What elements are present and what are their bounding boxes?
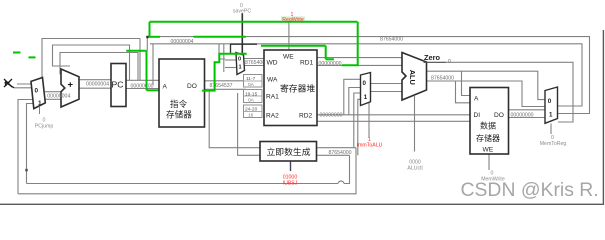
svg-text:寄存器堆: 寄存器堆 [280, 83, 315, 94]
wire green RegWrite right drop [357, 22, 359, 66]
wire DM WE stub [488, 154, 490, 170]
wire ALU out line1 to memtoreg mux [427, 71, 545, 99]
wire imm up to ALUsrc mux in1 line2 [358, 99, 361, 155]
wire green y37 segment2 [194, 36, 246, 38]
svg-text:RD2: RD2 [299, 113, 313, 120]
wire RD1 to ALU line2 [317, 64, 402, 66]
wire IM DO channel line2 [205, 88, 247, 90]
adder [61, 69, 79, 107]
wire PC loop outer right drop [139, 39, 141, 81]
immediate generator [260, 142, 317, 162]
svg-text:00000000: 00000000 [318, 61, 341, 67]
svg-text:PC: PC [112, 80, 124, 90]
wire RD1 to ALU line1 [317, 57, 402, 59]
svg-text:ALU: ALU [408, 70, 417, 85]
slice bits 11-7 [244, 75, 263, 89]
wire immgen out line1 [317, 147, 357, 149]
wire instr to immgen right [238, 93, 260, 155]
wire DM DO to mux line2 [509, 117, 546, 119]
wire WD mux in1 stub b [225, 67, 237, 69]
wire Zero output [446, 62, 573, 122]
wire green WE drop [289, 45, 326, 47]
svg-text:WE: WE [283, 54, 294, 61]
svg-text:19-15: 19-15 [245, 92, 258, 98]
wire RegWrite stub [288, 22, 290, 46]
svg-text:0: 0 [35, 88, 39, 95]
instruction memory [159, 59, 205, 127]
mux savePC (WD) [236, 53, 245, 75]
wire instr to immgen left [209, 89, 260, 147]
wire MemToReg select stub [550, 124, 552, 135]
wire green pc top link [126, 50, 146, 52]
wire top channel line 1 (savePC / ALU-out band top) [150, 37, 590, 114]
svg-text:0: 0 [363, 80, 367, 87]
wire savePC vertical drop to WD mux [230, 44, 232, 53]
wire outer feedback loop bottom/right [0, 30, 603, 204]
wire hop on line A [338, 181, 344, 183]
data memory [470, 88, 509, 155]
wire green dash 2 [29, 56, 36, 58]
svg-text:0: 0 [448, 59, 451, 65]
svg-text:16: 16 [248, 113, 254, 119]
wire WE stub regfile [288, 46, 290, 50]
wire green y37 segment1 [149, 36, 161, 38]
wire dark stub left of savePC mux [223, 44, 225, 72]
wire mux0 input a [14, 87, 34, 89]
svg-text:RegWrite: RegWrite [282, 17, 304, 23]
svg-text:DO: DO [494, 112, 504, 119]
svg-text:WA: WA [267, 77, 278, 84]
svg-text:CSDN @Kris R.: CSDN @Kris R. [461, 179, 599, 201]
svg-text:87654537: 87654537 [209, 83, 232, 89]
svg-text:00000004: 00000004 [86, 82, 109, 88]
wire ALUsrc mux out to ALU [371, 83, 403, 85]
mux PCjump [31, 78, 45, 115]
wire green dash 1 [13, 52, 21, 54]
svg-text:11-7: 11-7 [246, 76, 256, 82]
mux ALUsrc [361, 73, 371, 106]
svg-text:0: 0 [548, 98, 552, 105]
wire green into IM A [147, 89, 160, 91]
svg-text:1: 1 [239, 65, 242, 71]
junction dot [25, 169, 28, 172]
wire savePC channel dark segment [230, 44, 257, 53]
wire PC out line2 [126, 88, 159, 90]
svg-text:00000000: 00000000 [319, 113, 342, 119]
arrow unconnected marker [4, 79, 14, 88]
svg-text:0: 0 [238, 57, 241, 63]
svg-text:1: 1 [38, 100, 42, 107]
wire adder to PC line2 [79, 87, 111, 89]
wire mux out to adder line2 [45, 98, 61, 100]
wire green y65.3 horizontal [342, 64, 359, 66]
wire PC loop outer [42, 39, 140, 81]
wire green DO to WD mux staircase (over mux) [202, 54, 247, 91]
svg-text:IUBSJ: IUBSJ [283, 181, 298, 187]
wire ALUsrc select stub [368, 102, 370, 138]
wire RD2 channel line1 [317, 114, 470, 116]
wire ALUctl stub [414, 96, 416, 152]
svg-text:RA2: RA2 [266, 113, 279, 120]
wire DM DO to mux line1 [509, 109, 546, 111]
svg-text:24-20: 24-20 [245, 107, 258, 113]
wire RD2 channel line2 [317, 120, 470, 122]
svg-text:00000000: 00000000 [510, 113, 533, 119]
wire green left drop [149, 22, 151, 37]
wire green mid horizontal [261, 45, 289, 47]
svg-text:+: + [68, 80, 74, 91]
wire WD mux in1 stub a [225, 59, 236, 61]
svg-text:87654000: 87654000 [328, 150, 351, 156]
svg-text:87654000: 87654000 [431, 75, 454, 81]
wire ALU out line2 to memtoreg mux [427, 81, 545, 107]
wire top channel line 2 (band bottom) [150, 44, 582, 106]
svg-text:ImmToALU: ImmToALU [357, 143, 383, 149]
wire mux0 input b [17, 83, 34, 85]
svg-text:DO: DO [187, 83, 197, 90]
svg-text:DI: DI [474, 112, 481, 119]
wire band left drop [152, 44, 154, 85]
svg-text:WD: WD [267, 60, 278, 67]
wire WD mux out to regfile [245, 58, 265, 60]
svg-text:RD1: RD1 [300, 60, 314, 67]
wire adder to PC line1 [79, 79, 111, 81]
svg-text:87654000: 87654000 [380, 36, 403, 42]
junction dot green corner [146, 36, 148, 38]
svg-text:MemToReg: MemToReg [540, 141, 567, 147]
wire savePC vertical (dark) [241, 13, 243, 53]
wire ALU out branch to DM A line1 [462, 71, 471, 95]
wire imm up to ALUsrc mux in1 line1 [354, 93, 361, 148]
wire gray link under green [146, 37, 148, 51]
wire green pc vertical [146, 51, 148, 91]
svg-text:指令: 指令 [170, 98, 188, 109]
wire bottom feedback line B [18, 148, 356, 194]
wire PC feedback inner line1 [53, 45, 130, 80]
wire IM DO channel line1 [205, 80, 247, 82]
svg-text:00000004: 00000004 [47, 94, 70, 100]
svg-text:数据: 数据 [480, 121, 496, 131]
wire RD2 up to ALUsrc mux in0 line2 [349, 88, 361, 115]
svg-text:WE: WE [483, 147, 494, 154]
svg-text:00000004: 00000004 [170, 39, 193, 45]
slice bits 19-15 [244, 90, 263, 104]
wire green RegWrite top [150, 21, 358, 23]
svg-text:A: A [163, 84, 168, 91]
wire imm type stub [290, 162, 292, 172]
wire PCjump mux input1 line2 [27, 104, 36, 184]
svg-text:A: A [474, 96, 479, 103]
svg-text:PCjump: PCjump [35, 124, 54, 130]
register PC [111, 64, 126, 107]
wire instr vertical stub near DO [219, 44, 225, 59]
label RegWrite [281, 16, 305, 20]
wire mux out to adder line1 [45, 91, 61, 93]
svg-text:00000000: 00000000 [130, 83, 153, 89]
wire PC feedback inner line2 [60, 53, 138, 81]
svg-text:RA1: RA1 [266, 94, 279, 101]
mux MemToReg [545, 87, 558, 123]
svg-text:存储器: 存储器 [476, 133, 500, 143]
wire PC out line1 [126, 79, 159, 81]
svg-text:1: 1 [549, 112, 553, 119]
wire immgen out line2 [317, 154, 350, 156]
svg-text:ALUctl: ALUctl [407, 166, 422, 172]
svg-text:立即数生成: 立即数生成 [267, 146, 311, 157]
register file [264, 50, 317, 126]
svg-text:存储器: 存储器 [166, 109, 192, 120]
svg-text:Zero: Zero [424, 53, 441, 62]
slice bits 24-20 [244, 105, 263, 119]
svg-text:0A: 0A [248, 98, 255, 104]
wire bottom feedback line A [27, 155, 350, 183]
wire ALU out branch to DM A line2 [456, 81, 471, 103]
svg-text:0A: 0A [248, 82, 255, 88]
svg-text:1: 1 [364, 94, 368, 101]
wire PCjump mux input1 line1 [18, 100, 35, 194]
wire RD2 up to ALUsrc mux in0 line1 [344, 79, 361, 115]
svg-text:savePC: savePC [233, 9, 251, 15]
ALU [402, 53, 427, 101]
